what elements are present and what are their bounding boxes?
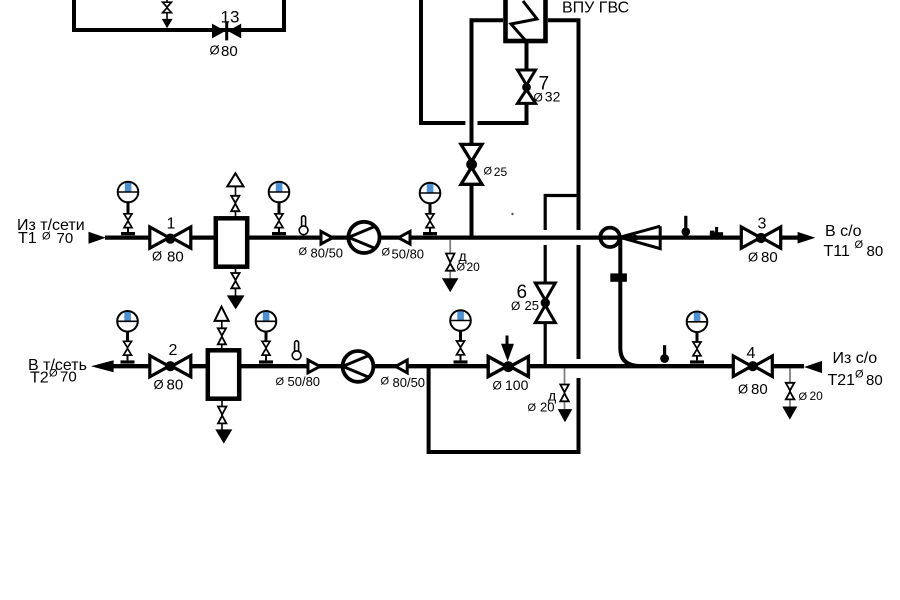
svg-text:20: 20 — [467, 260, 481, 274]
svg-text:Ø: Ø — [382, 247, 391, 259]
svg-text:Ø: Ø — [511, 299, 520, 313]
svg-text:Ø: Ø — [855, 368, 864, 380]
strainer (mud trap) on Т1 — [216, 173, 247, 309]
pump on Т1 — [348, 222, 379, 253]
svg-text:Ø: Ø — [799, 391, 808, 403]
svg-text:2: 2 — [169, 342, 178, 359]
svg-text:Ø: Ø — [152, 248, 162, 263]
pressure gauge on Т21 — [687, 312, 708, 364]
svg-text:Ø: Ø — [534, 90, 543, 104]
svg-text:80: 80 — [167, 377, 184, 394]
svg-text:80/50: 80/50 — [311, 245, 344, 260]
svg-text:Ø: Ø — [457, 262, 466, 274]
svg-text:13: 13 — [221, 7, 240, 26]
svg-text:Ø: Ø — [42, 231, 51, 243]
pressure gauge on Т1 inlet — [118, 182, 139, 236]
text: Из с/о Т21 Ø80 — [828, 350, 883, 389]
svg-text:1: 1 — [167, 215, 176, 232]
wire: exchanger left port down to Т1 — [472, 20, 504, 236]
svg-text:Ø: Ø — [381, 375, 390, 387]
svg-text:Ø: Ø — [738, 381, 748, 396]
text: В с/о Т11 Ø80 — [824, 223, 884, 260]
svg-text:Из с/о: Из с/о — [833, 350, 878, 367]
svg-text:Т11: Т11 — [824, 243, 850, 260]
svg-text:ВПУ ГВС: ВПУ ГВС — [562, 0, 629, 17]
text: В т/сеть Т2 Ø70 — [28, 357, 87, 387]
svg-text:Ø: Ø — [855, 239, 864, 251]
valve 6 — [511, 282, 555, 322]
stray mark — [511, 213, 513, 215]
sensor tap on Т11 — [710, 227, 723, 236]
flow arrow Т11 outlet — [798, 232, 816, 244]
valve 4 — [733, 345, 772, 398]
svg-text:Т21: Т21 — [828, 372, 856, 389]
valve 3 — [741, 215, 780, 266]
svg-text:80/50: 80/50 — [393, 375, 426, 390]
svg-text:Ø: Ø — [299, 246, 308, 258]
elevator mixing unit — [600, 226, 660, 248]
svg-text:Ø: Ø — [210, 43, 220, 58]
svg-text:80: 80 — [167, 249, 184, 266]
svg-text:Ø: Ø — [276, 376, 285, 388]
pressure gauge after strainer Т1 — [269, 182, 290, 236]
thermometer (filled) on Т11 — [682, 216, 691, 236]
wire: branch to valve 6 — [545, 196, 578, 365]
valve Ø25 on exchanger supply riser — [461, 144, 507, 184]
reducer Ø50/80 on Т1 — [382, 231, 425, 261]
svg-text:3: 3 — [758, 215, 767, 232]
svg-text:Ø: Ø — [484, 166, 493, 178]
wire: top bypass loop — [74, 0, 284, 30]
svg-text:20: 20 — [540, 400, 554, 415]
heat exchanger ВПУ ГВС — [506, 0, 630, 41]
svg-text:80: 80 — [751, 381, 768, 398]
reducer Ø80/50 on Т1 — [299, 231, 344, 260]
wire: riser from top to valve 7 line — [421, 0, 527, 123]
svg-text:Ø: Ø — [528, 402, 537, 414]
svg-text:20: 20 — [810, 389, 824, 403]
svg-text:80: 80 — [761, 249, 778, 266]
svg-text:Ø: Ø — [49, 367, 58, 379]
flow arrow Т21 inlet — [804, 361, 822, 373]
svg-text:70: 70 — [57, 230, 74, 247]
svg-text:Ø: Ø — [493, 378, 502, 392]
valve 7 — [518, 70, 561, 105]
flow arrow Т1 inlet — [89, 232, 106, 244]
wire: elevator suction drop with orifice — [610, 239, 640, 366]
flow arrow Т2 outlet — [91, 360, 114, 372]
pressure gauge after strainer Т2 — [256, 311, 277, 364]
wire: exchanger right port riser (crossing both mains) — [429, 20, 579, 452]
svg-text:50/80: 50/80 — [392, 247, 425, 262]
drain д Ø20 on Т1 — [442, 240, 480, 293]
svg-text:80: 80 — [221, 43, 238, 60]
drain д Ø20 on Т2 — [528, 369, 573, 423]
valve 1 — [150, 215, 191, 265]
drain valve on bypass — [162, 0, 173, 28]
text: Из т/сети Т1 Ø70 — [17, 217, 85, 247]
drain Ø20 on Т21 — [782, 369, 823, 420]
svg-text:Т1: Т1 — [18, 230, 37, 247]
svg-text:100: 100 — [505, 377, 529, 393]
svg-text:Т2: Т2 — [30, 370, 49, 387]
svg-text:80: 80 — [867, 243, 884, 260]
svg-text:80: 80 — [866, 372, 883, 389]
thermometer (outline) on Т1 — [299, 216, 308, 235]
pressure gauge on Т2 outlet — [117, 311, 138, 364]
thermometer (filled) on Т21 — [660, 345, 669, 363]
pipe Т1 supply main — [105, 236, 798, 240]
pipe Т2 return main — [113, 364, 804, 368]
svg-text:Ø: Ø — [748, 250, 758, 265]
strainer (mud trap) on Т2 — [208, 307, 239, 444]
valve 13 — [210, 7, 242, 60]
svg-text:25: 25 — [494, 165, 508, 179]
svg-text:4: 4 — [747, 345, 756, 362]
pump on Т2 — [343, 351, 374, 382]
svg-text:25: 25 — [525, 298, 539, 313]
valve 2 — [150, 342, 191, 393]
svg-text:70: 70 — [60, 369, 77, 386]
reducer Ø80/50 on Т2 — [381, 360, 426, 390]
svg-text:50/80: 50/80 — [288, 374, 321, 389]
pressure gauge before control valve — [450, 310, 471, 363]
thermometer (outline) on Т2 — [292, 341, 301, 360]
control valve Ø100 with actuator — [488, 336, 528, 394]
reducer Ø50/80 on Т2 — [276, 360, 321, 389]
svg-text:32: 32 — [545, 89, 561, 105]
svg-text:Ø: Ø — [154, 377, 164, 392]
svg-text:В с/о: В с/о — [825, 223, 862, 240]
pressure gauge before elevator Т1 — [420, 183, 441, 236]
